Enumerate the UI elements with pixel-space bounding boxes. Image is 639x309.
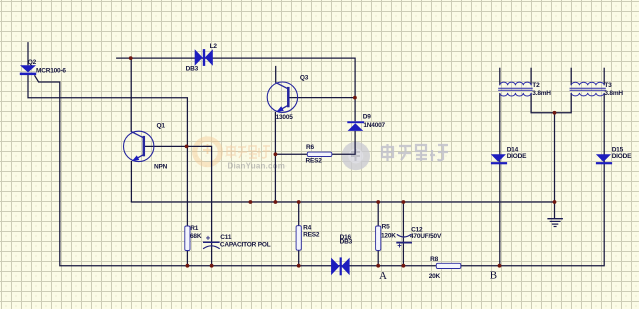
svg-text:C11: C11 bbox=[220, 234, 232, 241]
svg-text:RES2: RES2 bbox=[303, 232, 320, 239]
svg-text:R6: R6 bbox=[306, 144, 314, 151]
svg-text:T2: T2 bbox=[532, 82, 540, 89]
svg-text:DIODE: DIODE bbox=[612, 153, 632, 160]
svg-text:470UF/50V: 470UF/50V bbox=[410, 233, 442, 240]
svg-text:20K: 20K bbox=[429, 273, 441, 280]
svg-text:DB3: DB3 bbox=[186, 65, 199, 72]
svg-text:3.8mH: 3.8mH bbox=[532, 90, 551, 97]
svg-text:RES2: RES2 bbox=[306, 157, 323, 164]
svg-text:R1: R1 bbox=[190, 225, 198, 232]
svg-text:DianYuan.com: DianYuan.com bbox=[228, 162, 286, 171]
svg-text:3.8mH: 3.8mH bbox=[604, 90, 623, 97]
svg-text:R8: R8 bbox=[430, 256, 438, 263]
svg-text:NPN: NPN bbox=[154, 164, 168, 171]
svg-text:MCR100-6: MCR100-6 bbox=[36, 68, 66, 75]
svg-text:Q2: Q2 bbox=[28, 59, 37, 66]
svg-text:DIODE: DIODE bbox=[507, 153, 527, 160]
svg-text:R4: R4 bbox=[303, 225, 311, 232]
svg-text:1N4007: 1N4007 bbox=[363, 122, 385, 129]
svg-text:68K: 68K bbox=[190, 233, 202, 240]
svg-text:D9: D9 bbox=[363, 114, 371, 121]
svg-text:120K: 120K bbox=[381, 232, 396, 239]
svg-text:B: B bbox=[490, 270, 497, 282]
svg-text:A: A bbox=[379, 270, 387, 282]
svg-text:L2: L2 bbox=[210, 43, 218, 50]
svg-text:DB3: DB3 bbox=[340, 238, 353, 245]
svg-text:13005: 13005 bbox=[276, 114, 294, 121]
svg-text:CAPACITOR POL: CAPACITOR POL bbox=[220, 242, 271, 249]
svg-text:Q3: Q3 bbox=[300, 74, 309, 81]
svg-text:R5: R5 bbox=[382, 224, 390, 231]
svg-text:T3: T3 bbox=[604, 82, 612, 89]
svg-text:Q1: Q1 bbox=[157, 123, 166, 130]
